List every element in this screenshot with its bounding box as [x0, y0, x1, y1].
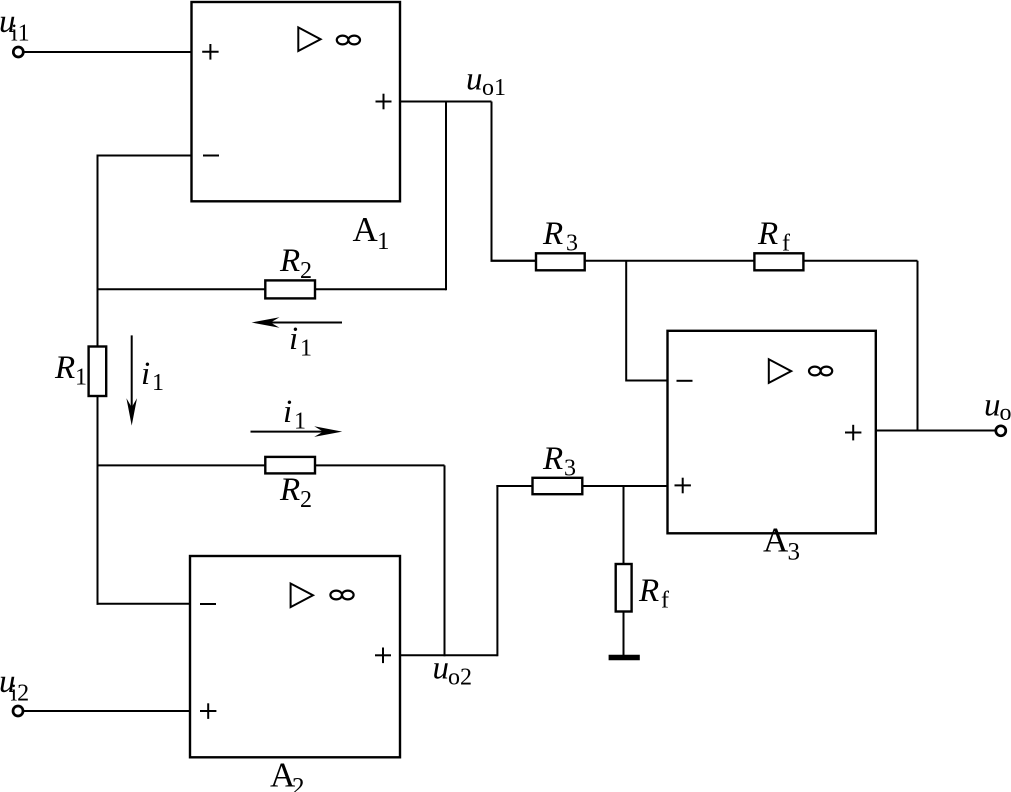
svg-text:1: 1	[300, 336, 312, 362]
node uo label	[984, 388, 1011, 427]
label Rf (grounded)	[638, 573, 669, 614]
op-amp A3 triangle symbol	[769, 359, 791, 383]
label i1 (right arrow)	[283, 394, 306, 435]
svg-text:i2: i2	[11, 681, 30, 707]
svg-text:R: R	[757, 216, 778, 252]
terminal ui1 circle	[13, 47, 23, 57]
resistor R2 (bottom) body	[265, 457, 315, 474]
op-amp A2 infinity gain symbol	[330, 591, 353, 600]
svg-text:f: f	[661, 588, 669, 614]
svg-text:i: i	[283, 394, 292, 430]
svg-text:1: 1	[377, 228, 390, 255]
wire R2 top horizontal	[97, 288, 447, 290]
op-amp A1 noninverting input pin +	[202, 44, 218, 60]
svg-text:2: 2	[300, 487, 312, 513]
label R2 (top)	[279, 243, 312, 284]
svg-text:o1: o1	[482, 75, 506, 101]
wire R3/Rf top horizontal	[491, 260, 918, 262]
wire uo1 vertical down	[492, 102, 536, 261]
resistor R3 (bottom) body	[533, 478, 583, 494]
node A1 input label ui1	[0, 4, 30, 47]
svg-text:A: A	[353, 210, 379, 249]
terminal ui2 circle	[13, 706, 23, 716]
svg-text:1: 1	[152, 370, 164, 396]
svg-text:R: R	[279, 472, 300, 508]
wire A2 output horizontal	[400, 654, 497, 656]
resistor R2 (top) body	[265, 280, 315, 298]
wire R1 bottom to A2 - node	[97, 396, 99, 605]
svg-text:3: 3	[564, 456, 576, 482]
svg-text:A: A	[763, 521, 789, 560]
terminal uo circle	[996, 426, 1006, 436]
svg-text:R: R	[54, 350, 75, 386]
op-amp A3 infinity gain symbol	[809, 367, 832, 376]
svg-text:u: u	[984, 388, 1001, 424]
svg-text:f: f	[782, 231, 790, 257]
label R3 (bottom)	[542, 441, 576, 482]
op-amp U1 (A1) box	[192, 2, 401, 201]
current arrow i1 (left, on R2 top)	[252, 317, 343, 328]
resistor R3 (top) body	[536, 253, 585, 270]
op-amp A1 inverting input pin -	[203, 155, 219, 157]
label A3	[763, 521, 800, 566]
label Rf (top)	[757, 216, 790, 257]
resistor R1 body	[89, 347, 107, 397]
svg-text:2: 2	[300, 258, 312, 284]
label R1	[54, 350, 87, 391]
op-amp A2 output pin +	[375, 648, 391, 664]
label R3 (top)	[542, 216, 578, 257]
svg-text:1: 1	[294, 409, 306, 435]
wire feedback vertical to R2 top	[445, 102, 447, 291]
svg-text:R: R	[279, 243, 300, 279]
op-amp A3 inverting input pin -	[677, 380, 693, 382]
current arrow i1 (right, on R2 bottom)	[251, 426, 343, 437]
wire R3 bottom horizontal to A3 + input	[496, 485, 667, 487]
wire uo2 vertical up to R3	[497, 486, 535, 656]
op-amp A2 triangle symbol	[291, 584, 313, 608]
svg-text:R: R	[638, 573, 659, 609]
svg-text:3: 3	[566, 231, 578, 257]
op-amp A1 triangle symbol	[298, 27, 320, 51]
op-amp A2 inverting input pin -	[200, 603, 216, 605]
wire left vertical node (A1 - to R2/R1)	[97, 155, 99, 348]
svg-text:3: 3	[788, 539, 801, 566]
wire junction down to A3 - input	[626, 261, 667, 381]
node uo2 label	[433, 651, 473, 691]
label A2	[270, 756, 305, 792]
op-amp A1 output pin +	[376, 94, 392, 110]
op-amp A3 output pin +	[845, 425, 861, 441]
node A2 input label ui2	[0, 664, 29, 707]
label A1	[353, 210, 390, 255]
op-amp A2 noninverting input pin +	[200, 703, 216, 719]
op-amp U2 (A2) box	[190, 556, 400, 757]
svg-text:R: R	[542, 216, 563, 252]
op-amp A1 infinity gain symbol	[337, 36, 360, 45]
current arrow i1 (down, beside R1)	[126, 335, 137, 425]
node uo1 label	[466, 62, 506, 102]
resistor Rf (grounded) body	[616, 564, 632, 612]
svg-text:u: u	[433, 651, 450, 687]
wire ui1 to A1 + input	[24, 51, 192, 53]
svg-text:R: R	[542, 441, 563, 477]
wire Rf vertical to ground	[623, 486, 625, 655]
svg-text:i1: i1	[11, 21, 30, 47]
wire A2 - input horizontal	[97, 603, 191, 605]
wire A1 - input horizontal	[97, 155, 192, 157]
wire A1 output horizontal	[400, 101, 492, 103]
label i1 (down arrow)	[141, 356, 164, 396]
svg-text:i: i	[289, 321, 298, 357]
svg-text:1: 1	[75, 365, 87, 391]
wire Rf right vertical to A3 output	[917, 261, 919, 432]
svg-text:u: u	[466, 62, 483, 98]
wire A3 output horizontal	[876, 430, 996, 432]
resistor Rf (top) body	[754, 253, 803, 270]
svg-text:2: 2	[292, 774, 305, 792]
svg-text:o2: o2	[448, 665, 472, 691]
op-amp U3 (A3) box	[668, 331, 876, 534]
ground	[609, 655, 640, 661]
wire R2 bottom horizontal	[97, 464, 445, 466]
label R2 (bottom)	[279, 472, 312, 513]
svg-text:i: i	[141, 356, 150, 392]
svg-text:o: o	[1000, 400, 1011, 426]
op-amp A3 noninverting input pin +	[675, 478, 691, 494]
wire feedback vertical bottom R2 to A2 output	[444, 465, 446, 656]
wire ui2 to A2 + input	[23, 710, 190, 712]
label i1 (left arrow)	[289, 321, 312, 362]
